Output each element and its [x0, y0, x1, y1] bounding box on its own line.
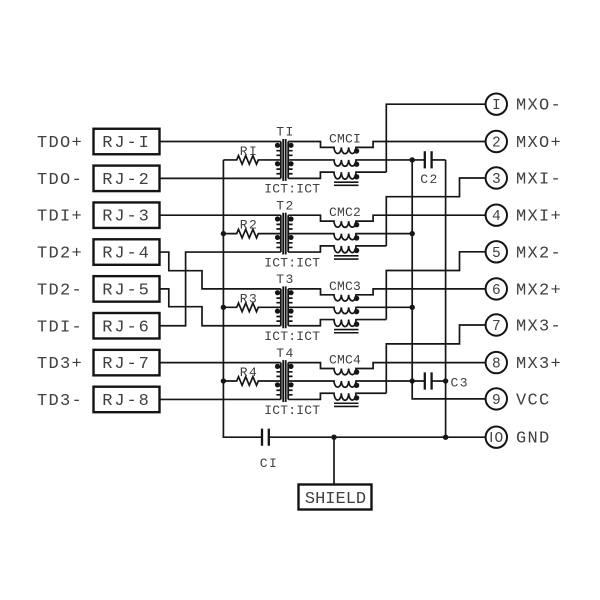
pin 7 MX3- [486, 314, 562, 336]
svg-text:CMC4: CMC4 [329, 353, 361, 368]
pin 8 MX3+ [486, 352, 562, 374]
svg-text:TDI-: TDI- [37, 318, 83, 337]
svg-text:MXI+: MXI+ [516, 208, 562, 227]
pin 5 MX2- [486, 241, 562, 263]
wire shield drop [333, 437, 335, 484]
resistor R4 [223, 365, 280, 385]
svg-text:C2: C2 [420, 172, 438, 187]
junction bus B GND [443, 435, 448, 440]
transformer T1 [264, 125, 320, 197]
svg-text:TI: TI [276, 125, 294, 140]
svg-text:MX3-: MX3- [516, 318, 562, 337]
junction bus A / R2 [221, 231, 226, 236]
wire GND line to pin 10 [269, 436, 486, 438]
svg-text:RJ-3: RJ-3 [102, 208, 150, 227]
svg-text:TDI+: TDI+ [37, 208, 83, 227]
wire RJ-7 to T4 top [160, 362, 281, 364]
svg-text:RJ-2: RJ-2 [102, 171, 150, 190]
resistor R2 [223, 218, 280, 238]
transformer T2 [264, 198, 320, 270]
svg-text:T4: T4 [276, 346, 294, 361]
pin 1 MX0- [486, 94, 562, 116]
junction shield tap [331, 435, 336, 440]
svg-text:R2: R2 [240, 218, 258, 233]
svg-text:MXO-: MXO- [516, 97, 562, 116]
svg-text:CI: CI [260, 456, 278, 471]
junction bus/CMC2 center tap [410, 231, 415, 236]
wire CMC3 to pin 5 MX2- [386, 252, 485, 320]
svg-text:I: I [492, 98, 501, 114]
transformer T3 [264, 272, 320, 344]
svg-text:TD3+: TD3+ [37, 355, 83, 374]
terminal RJ-3 [94, 202, 160, 228]
wire CMC2 to pin 3 MX1- [386, 178, 485, 246]
junction bus A / R4 [221, 378, 226, 383]
svg-text:C3: C3 [451, 375, 469, 390]
wire RJ-8 to T4 bottom [160, 398, 281, 400]
wire RJ-1 to T1 top [160, 141, 281, 143]
svg-text:5: 5 [492, 246, 501, 262]
junction bus/CMC4 center tap [410, 378, 415, 383]
terminal RJ-8 [94, 387, 160, 413]
choke CMC4 [288, 353, 485, 407]
pin 4 MX1+ [486, 205, 562, 227]
capacitor C1 [260, 429, 278, 471]
svg-text:RJ-5: RJ-5 [102, 281, 150, 300]
svg-text:RJ-I: RJ-I [102, 134, 150, 153]
junction bus A / R3 [221, 305, 226, 310]
svg-text:TD3-: TD3- [37, 392, 83, 411]
terminal RJ-4 [94, 239, 160, 264]
svg-text:GND: GND [516, 430, 551, 449]
wire center-tap bus A [223, 160, 262, 437]
terminal RJ-2 [94, 166, 160, 192]
svg-text:VCC: VCC [516, 391, 551, 410]
wire RJ-6 to T2 bottom [160, 252, 281, 326]
capacitor C3 [425, 372, 469, 390]
terminal SHIELD [299, 485, 372, 510]
terminal RJ-7 [94, 350, 160, 376]
wire RJ-3 to T2 top [160, 214, 281, 216]
svg-text:2: 2 [492, 136, 501, 152]
svg-text:RJ-4: RJ-4 [102, 245, 150, 264]
svg-text:6: 6 [492, 283, 501, 299]
svg-text:CMCI: CMCI [329, 132, 361, 147]
resistor R3 [223, 291, 280, 311]
terminal RJ-6 [94, 313, 160, 339]
terminal RJ-5 [94, 276, 160, 302]
svg-text:ICT:ICT: ICT:ICT [264, 182, 320, 197]
svg-text:8: 8 [492, 357, 501, 373]
svg-text:T2: T2 [276, 198, 294, 213]
wire cap bus B [445, 160, 447, 437]
svg-text:ICT:ICT: ICT:ICT [264, 255, 320, 270]
svg-text:ICT:ICT: ICT:ICT [264, 403, 320, 418]
choke CMC1 [288, 132, 485, 186]
pin 9 VCC [486, 388, 551, 410]
svg-text:SHIELD: SHIELD [305, 490, 366, 509]
svg-text:ICT:ICT: ICT:ICT [264, 329, 320, 344]
svg-text:R3: R3 [240, 291, 258, 306]
svg-text:T3: T3 [276, 272, 294, 287]
pin 3 MX1- [486, 167, 562, 189]
junction bus/CMC1 center tap [410, 157, 415, 162]
svg-text:RJ-6: RJ-6 [102, 318, 150, 337]
svg-text:4: 4 [492, 209, 501, 225]
svg-text:MXO+: MXO+ [516, 134, 562, 153]
wire RJ-2 to T1 bottom [160, 177, 281, 179]
svg-text:MX2-: MX2- [516, 244, 562, 263]
terminal RJ-1 [94, 129, 160, 155]
svg-text:9: 9 [492, 393, 501, 409]
svg-text:RJ-8: RJ-8 [102, 392, 150, 411]
svg-text:3: 3 [492, 172, 501, 188]
choke CMC2 [288, 205, 485, 259]
svg-text:RI: RI [240, 144, 258, 159]
wire CMC4 to pin 7 MX3- [386, 325, 485, 393]
choke CMC3 [288, 279, 485, 333]
svg-text:7: 7 [492, 319, 501, 335]
svg-text:R4: R4 [240, 365, 258, 380]
svg-text:TD2+: TD2+ [37, 245, 83, 264]
wire RJ-5 to T3 bottom [160, 289, 281, 326]
svg-text:MX2+: MX2+ [516, 281, 562, 300]
pin 2 MX0+ [486, 131, 562, 153]
svg-text:TD2-: TD2- [37, 281, 83, 300]
wire center-tap bus to VCC [412, 160, 485, 399]
svg-text:IO: IO [489, 430, 503, 447]
resistor R1 [223, 144, 280, 164]
wire CMC1 to pin 1 MX0- [386, 104, 485, 172]
pin 10 GND [486, 427, 551, 449]
pin 6 MX2+ [486, 278, 562, 300]
junction bus/CMC3 center tap [410, 305, 415, 310]
svg-text:TDO+: TDO+ [37, 134, 83, 153]
svg-text:CMC2: CMC2 [329, 205, 361, 220]
svg-text:MXI-: MXI- [516, 171, 562, 190]
capacitor C2 [420, 151, 445, 187]
svg-text:CMC3: CMC3 [329, 279, 361, 294]
wire RJ-4 to T3 top [160, 252, 281, 289]
svg-text:RJ-7: RJ-7 [102, 355, 150, 374]
transformer T4 [264, 346, 320, 418]
svg-text:TDO-: TDO- [37, 171, 83, 190]
svg-text:MX3+: MX3+ [516, 355, 562, 374]
junction C3 bus B [443, 378, 448, 383]
